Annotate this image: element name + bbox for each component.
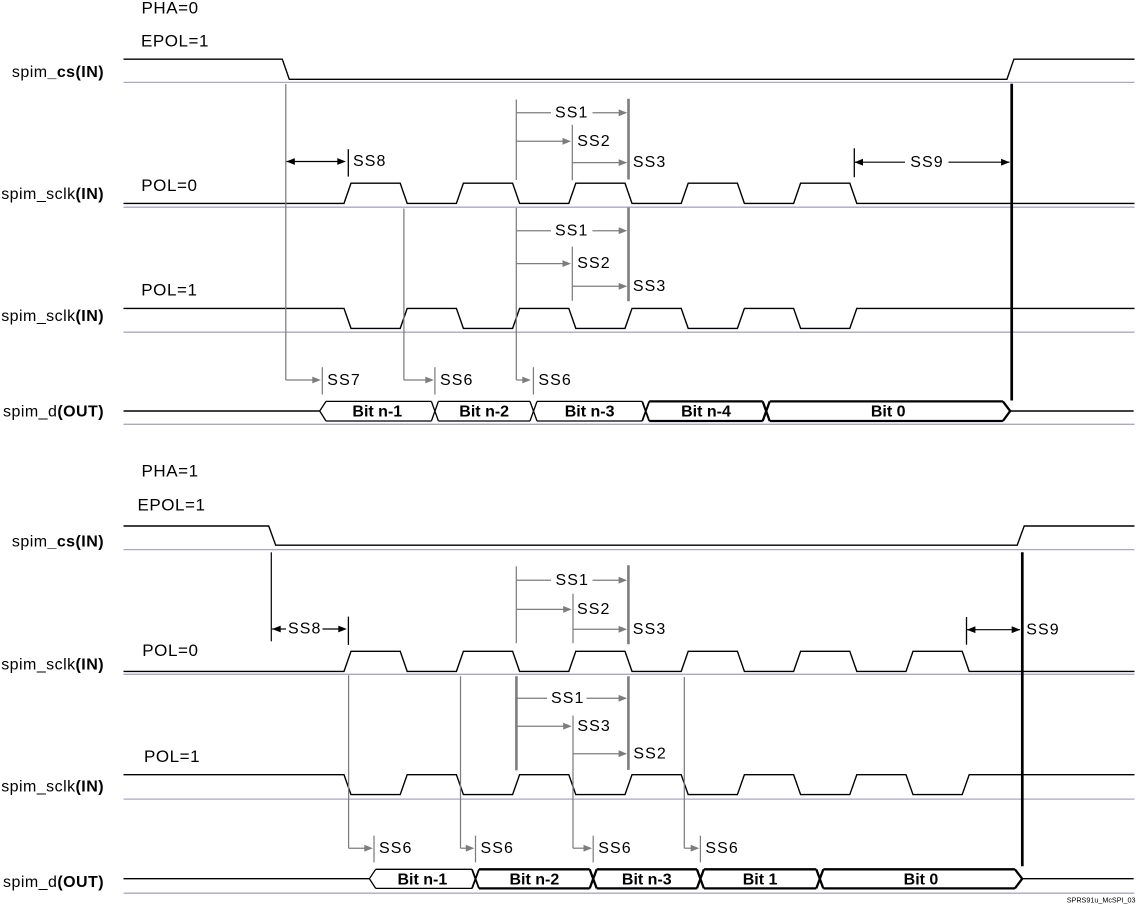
svg-text:SS2: SS2 bbox=[577, 133, 611, 150]
svg-text:Bit 1: Bit 1 bbox=[743, 871, 778, 888]
svg-text:spim_d(OUT): spim_d(OUT) bbox=[3, 874, 104, 891]
svg-text:SS9: SS9 bbox=[1026, 621, 1060, 638]
svg-text:SS1: SS1 bbox=[556, 572, 590, 589]
spim_d bus transition X at 434.9 bbox=[431, 401, 438, 421]
reference line under spim_cs bottom bbox=[124, 549, 1135, 551]
svg-text:PHA=1: PHA=1 bbox=[142, 462, 199, 481]
svg-text:Bit 0: Bit 0 bbox=[871, 403, 906, 420]
SS9 dimension arrow bottom (black double arrow) bbox=[967, 629, 1020, 631]
SS2 dimension arrow bottom POL=1 group bbox=[573, 753, 619, 755]
svg-text:SS8: SS8 bbox=[353, 153, 387, 170]
reference line under spim_sclk POL=0 top bbox=[124, 206, 1135, 208]
svg-text:spim_sclk(IN): spim_sclk(IN) bbox=[1, 186, 104, 203]
SS3 thick boundary line x=628.5 lower segment top bbox=[627, 208, 630, 302]
spim_d bus transition X at 533.5 bbox=[530, 401, 537, 421]
SS3 dimension arrow bottom POL=1 group bbox=[516, 725, 563, 727]
SS3 dimension arrow bottom POL=0 group bbox=[573, 628, 619, 630]
spim_d bus transition X at 766.2 bbox=[763, 401, 770, 421]
spim_d bus cell Bit 0 bbox=[823, 869, 1015, 888]
waveform spim_sclk POL=1 top (inverted, 5 pulses) bbox=[124, 308, 1135, 328]
spim_d bus close chevron bbox=[1003, 401, 1010, 421]
SS1 thick boundary line x=516.4 bottom POL=1 group bbox=[515, 676, 518, 770]
reference line under spim_sclk POL=1 top bbox=[124, 331, 1135, 333]
SS1 boundary line x=516.3 bottom POL=0 group bbox=[515, 566, 517, 643]
marker line at cs fall (gray vertical x=285.8) top bbox=[285, 84, 287, 380]
svg-text:Bit n-4: Bit n-4 bbox=[681, 403, 731, 420]
spim_d single line before bus top bbox=[124, 410, 320, 412]
svg-text:spim_sclk(IN): spim_sclk(IN) bbox=[1, 308, 104, 325]
svg-text:Bit n-2: Bit n-2 bbox=[459, 403, 509, 420]
svg-text:SS3: SS3 bbox=[633, 278, 667, 295]
svg-text:SS6: SS6 bbox=[538, 372, 572, 389]
SS2 boundary tick x=573 bottom POL=0 group bbox=[572, 594, 574, 643]
svg-text:SS6: SS6 bbox=[705, 840, 739, 857]
spim_d bus cell Bit n-3 bbox=[597, 869, 697, 888]
svg-text:POL=1: POL=1 bbox=[141, 281, 197, 300]
SS3 thick boundary line x=628.4 bottom POL=0 group bbox=[627, 565, 630, 644]
svg-text:spim_d(OUT): spim_d(OUT) bbox=[3, 404, 104, 421]
SS6 elbow arrow #2 bottom bbox=[461, 847, 467, 849]
SS6 elbow arrow #4 bottom bbox=[684, 847, 691, 849]
waveform spim_cs top bbox=[124, 59, 1135, 79]
SS6 first tick top bbox=[434, 367, 436, 394]
svg-text:Bit n-1: Bit n-1 bbox=[352, 403, 402, 420]
svg-text:SS2: SS2 bbox=[577, 255, 611, 272]
spim_d single line after bus top bbox=[1010, 410, 1133, 412]
spim_d bus cell Bit 0 bbox=[770, 401, 1003, 421]
SS3 thick boundary line x=628.5 top POL=0 group bbox=[627, 99, 630, 180]
SS6 elbow arrow #3 bottom bbox=[573, 847, 585, 849]
svg-text:spim_sclk(IN): spim_sclk(IN) bbox=[1, 656, 104, 673]
svg-text:SS2: SS2 bbox=[633, 745, 667, 762]
svg-text:Bit n-1: Bit n-1 bbox=[398, 871, 448, 888]
SS6 marker vertical line #1 bottom bbox=[348, 675, 350, 848]
SS9 tick top (black) bbox=[853, 148, 855, 177]
spim_d single line after bus bottom bbox=[1022, 878, 1133, 880]
SS2 thick boundary line x=628.4 bottom POL=1 group bbox=[627, 676, 630, 770]
spim_d bus cell Bit n-2 bbox=[438, 401, 530, 421]
SS8 tick top (black) bbox=[347, 149, 349, 176]
spim_d bus transition X at 593.2 bbox=[590, 869, 597, 888]
SS3 dimension arrow top POL=1 group bbox=[572, 285, 619, 287]
spim_d bus open chevron bbox=[369, 869, 375, 888]
svg-text:SS6: SS6 bbox=[440, 372, 474, 389]
SS1 dimension arrow top POL=1 group bbox=[516, 230, 551, 232]
spim_d bus transition X at 819.8 bbox=[816, 869, 823, 888]
spim_d bus cell Bit n-4 bbox=[649, 401, 763, 421]
SS6 tick #3 bottom bbox=[592, 836, 594, 863]
SS1 dimension arrow top POL=0 group bbox=[516, 112, 551, 114]
spim_d bus cell Bit n-2 bbox=[479, 869, 590, 888]
svg-text:spim_cs(IN): spim_cs(IN) bbox=[12, 64, 104, 81]
spim_d single line before bus bottom bbox=[124, 878, 370, 880]
marker line at sclk fall x=516.3 top (upper segment) bbox=[515, 100, 517, 181]
waveform spim_sclk POL=0 bottom (6 pulses) bbox=[124, 651, 1135, 671]
marker line at sclk fall x=403.7 top bbox=[403, 209, 405, 381]
svg-text:SS3: SS3 bbox=[577, 718, 611, 735]
SS6 second elbow arrow top bbox=[516, 379, 523, 381]
SS7 elbow arrow top bbox=[286, 379, 314, 381]
waveform spim_sclk POL=1 bottom (inverted, 6 pulses) bbox=[124, 775, 1135, 795]
spim_d bus transition X at 700.4 bbox=[697, 869, 704, 888]
SS1 dimension arrow bottom POL=0 group bbox=[516, 579, 551, 581]
svg-text:EPOL=1: EPOL=1 bbox=[141, 32, 209, 51]
SS2 boundary tick x=572.3 top POL=0 group bbox=[571, 125, 573, 181]
spim_d bus cell Bit 1 bbox=[704, 869, 816, 888]
spim_d bus cell Bit n-1 bbox=[326, 401, 431, 421]
SS2 dimension arrow top POL=0 group bbox=[516, 140, 563, 142]
SS8 dimension arrows bottom with text between bbox=[272, 628, 286, 630]
svg-text:SS3: SS3 bbox=[633, 621, 667, 638]
SS7 tick top bbox=[321, 367, 323, 394]
waveform spim_sclk POL=0 top (5 pulses) bbox=[124, 183, 1135, 203]
svg-text:Bit 0: Bit 0 bbox=[904, 871, 939, 888]
reference line under spim_d top bbox=[124, 423, 1135, 425]
thick black event line x=1011.7 top bbox=[1010, 84, 1013, 401]
SS6 elbow arrow #1 bottom bbox=[349, 847, 366, 849]
svg-text:spim_cs(IN): spim_cs(IN) bbox=[12, 533, 104, 550]
reference line under spim_sclk POL=0 bottom bbox=[124, 673, 1135, 675]
svg-text:EPOL=1: EPOL=1 bbox=[138, 496, 206, 515]
svg-text:SS8: SS8 bbox=[288, 621, 322, 638]
spim_d bus cell Bit n-1 bbox=[376, 869, 472, 888]
svg-text:SS1: SS1 bbox=[555, 222, 589, 239]
waveform spim_cs bottom bbox=[124, 526, 1135, 545]
reference line under spim_d bottom bbox=[124, 892, 1135, 894]
spim_d bus transition X at 645.7 bbox=[642, 401, 649, 421]
SS3 boundary tick x=573 bottom POL=1 group (extends to SS6 elbow) bbox=[572, 716, 574, 849]
SS2 boundary tick x=572.3 top POL=1 group bbox=[571, 247, 573, 301]
reference line (low) under spim_cs top bbox=[124, 81, 1135, 83]
spim_d bus close chevron bbox=[1015, 869, 1022, 888]
svg-text:SS6: SS6 bbox=[379, 840, 413, 857]
SS6 first elbow arrow top bbox=[404, 379, 427, 381]
SS6 tick #1 bottom bbox=[373, 836, 375, 863]
spim_d bus open chevron bbox=[320, 401, 326, 421]
marker line at sclk fall x=516.3 top (lower segment) bbox=[515, 208, 517, 380]
svg-text:SS3: SS3 bbox=[633, 154, 667, 171]
spim_d bus transition X at 475.5 bbox=[472, 869, 479, 888]
svg-text:SS7: SS7 bbox=[327, 372, 361, 389]
SS8 tick bottom (black) bbox=[347, 617, 349, 645]
svg-text:SS1: SS1 bbox=[555, 104, 589, 121]
SS2 dimension arrow top POL=1 group bbox=[516, 263, 563, 265]
SS8 left boundary line bottom (black vertical at cs fall) bbox=[270, 552, 272, 641]
SS9 tick bottom (black) bbox=[966, 617, 968, 645]
svg-text:Bit n-3: Bit n-3 bbox=[565, 403, 615, 420]
svg-text:Bit n-2: Bit n-2 bbox=[510, 871, 560, 888]
svg-text:POL=0: POL=0 bbox=[142, 641, 198, 660]
thick black event line x=1022.3 bottom bbox=[1021, 552, 1024, 866]
reference line under spim_sclk POL=1 bottom bbox=[124, 798, 1135, 800]
svg-text:spim_sclk(IN): spim_sclk(IN) bbox=[1, 779, 104, 796]
SS3 dimension arrow top POL=0 group bbox=[572, 162, 619, 164]
spim_d bus cell Bit n-3 bbox=[537, 401, 642, 421]
svg-text:PHA=0: PHA=0 bbox=[142, 0, 199, 18]
SS6 marker vertical line #2 bottom bbox=[460, 676, 462, 848]
SS9 dimension arrow top (black double arrow with text gap) bbox=[854, 161, 905, 163]
SS6 marker vertical line #4 bottom bbox=[683, 677, 685, 848]
svg-text:SPRS91u_McSPI_03: SPRS91u_McSPI_03 bbox=[1067, 895, 1136, 904]
SS6 tick #2 bottom bbox=[475, 836, 477, 863]
svg-text:Bit n-3: Bit n-3 bbox=[622, 871, 672, 888]
svg-text:SS6: SS6 bbox=[598, 840, 632, 857]
SS6 tick #4 bottom bbox=[699, 836, 701, 863]
svg-text:POL=0: POL=0 bbox=[141, 176, 197, 195]
SS1 dimension arrow bottom POL=1 group bbox=[516, 697, 547, 699]
svg-text:SS9: SS9 bbox=[910, 154, 944, 171]
SS2 dimension arrow bottom POL=0 group bbox=[516, 608, 563, 610]
svg-text:POL=1: POL=1 bbox=[144, 747, 200, 766]
svg-text:SS1: SS1 bbox=[551, 690, 585, 707]
svg-text:SS2: SS2 bbox=[577, 601, 611, 618]
svg-text:SS6: SS6 bbox=[481, 840, 515, 857]
SS8 dimension arrow top (black double arrow) bbox=[287, 161, 345, 163]
SS6 second tick top bbox=[532, 367, 534, 394]
